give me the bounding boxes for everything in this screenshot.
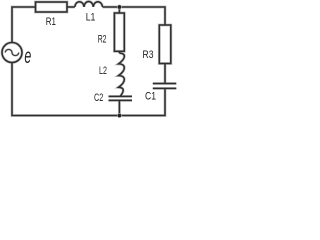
soft halo underlayer (schematic strokes): [2, 1, 176, 115]
svg-text:L2: L2: [99, 65, 107, 77]
svg-text:C2: C2: [94, 92, 103, 104]
main dark strokes (schematic): [2, 1, 176, 115]
svg-text:R2: R2: [98, 34, 107, 46]
svg-text:e: e: [24, 45, 31, 68]
svg-text:R1: R1: [46, 16, 56, 28]
svg-text:L1: L1: [86, 11, 96, 23]
node A junction dot: [117, 5, 122, 10]
svg-text:C1: C1: [145, 90, 156, 102]
svg-text:R3: R3: [143, 49, 154, 61]
node B junction dot: [117, 113, 122, 118]
ac source sine wave: [5, 49, 18, 55]
